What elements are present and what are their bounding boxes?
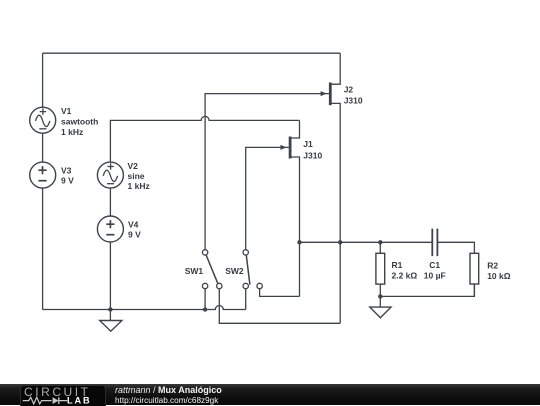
wire V4 bottom to ground bus — [109, 242, 111, 310]
svg-text:LAB: LAB — [67, 396, 92, 405]
junction J2 source on output bus — [338, 240, 342, 244]
source V4 battery — [97, 216, 123, 242]
svg-text:V3: V3 — [61, 166, 72, 176]
svg-text:C1: C1 — [429, 260, 440, 270]
svg-text:2.2 kΩ: 2.2 kΩ — [392, 270, 418, 280]
wire SW2 left throw to ground bus end — [245, 289, 247, 310]
svg-text:J2: J2 — [344, 84, 354, 94]
label J1 — [303, 139, 322, 161]
wire SW2 right throw to J1 source line — [260, 289, 300, 297]
svg-text:1 kHz: 1 kHz — [128, 181, 150, 191]
CircuitLab logo badge — [20, 385, 106, 406]
switch SW1 — [202, 250, 222, 289]
svg-text:J1: J1 — [303, 139, 313, 149]
label V2 — [128, 161, 150, 191]
junction R1 top on output bus — [378, 240, 382, 244]
label SW1 — [185, 266, 204, 276]
wire J1 gate to SW2 common — [246, 147, 289, 249]
label SW2 — [225, 266, 244, 276]
label V3 — [61, 166, 74, 186]
wire V2 bottom to V4 top — [109, 188, 111, 216]
CircuitLab logo — [21, 384, 121, 405]
junction J1 source on output bus — [297, 240, 301, 244]
svg-text:SW1: SW1 — [185, 266, 204, 276]
svg-text:sine: sine — [128, 171, 145, 181]
label R1 — [392, 260, 418, 280]
label R2 — [487, 260, 511, 280]
wire V2 top to J1 drain with hop over SW1 gate wire — [110, 116, 299, 162]
wire J2 gate to SW1 common — [205, 94, 329, 250]
wire top rail V1 to J2 drain — [43, 53, 341, 107]
svg-text:R2: R2 — [487, 260, 498, 270]
label C1 — [424, 260, 446, 280]
resistor R2 — [470, 253, 479, 296]
svg-text:9 V: 9 V — [61, 176, 74, 186]
ground (right, under R1) — [370, 296, 391, 317]
svg-text:sawtooth: sawtooth — [61, 117, 98, 127]
wire V1 bottom to V3 top — [42, 133, 44, 162]
svg-text:1 kHz: 1 kHz — [61, 127, 83, 137]
junction R1 bottom / ground — [378, 294, 382, 298]
svg-text:SW2: SW2 — [225, 266, 244, 276]
wire V3 bottom to ground bus — [42, 188, 44, 310]
source V2 sine — [97, 162, 123, 188]
svg-text:R1: R1 — [392, 260, 403, 270]
label V4 — [128, 219, 141, 239]
switch SW2 — [243, 250, 262, 289]
attribution text — [115, 385, 222, 406]
svg-text:9 V: 9 V — [128, 229, 141, 239]
label J2 — [344, 84, 363, 105]
transistor J1 N-JFET — [280, 120, 299, 296]
transistor J2 N-JFET — [321, 53, 341, 323]
wire SW1 right throw down under bus to J2 source line — [219, 289, 340, 324]
wire output bus J1 source to C1 left plate — [300, 241, 432, 243]
ground (left, under V4) — [100, 310, 122, 332]
resistor R1 — [376, 242, 385, 296]
svg-text:J310: J310 — [303, 151, 322, 161]
label V1 — [61, 106, 98, 137]
capacitor C1 — [432, 229, 437, 257]
source V3 battery — [30, 162, 56, 188]
svg-text:V2: V2 — [128, 161, 139, 171]
source V1 sawtooth — [30, 107, 56, 133]
wire C1 right plate to R2 top — [437, 242, 474, 253]
svg-text:V4: V4 — [128, 219, 139, 229]
svg-text:10 kΩ: 10 kΩ — [487, 271, 511, 281]
footer bar — [0, 384, 540, 405]
svg-text:10 µF: 10 µF — [424, 270, 446, 280]
junction SW1 left throw on ground bus — [203, 307, 207, 311]
svg-text:V1: V1 — [61, 106, 72, 116]
wire SW1 left throw to ground bus — [204, 289, 206, 310]
svg-text:J310: J310 — [344, 96, 363, 106]
wire ground bus with hop over SW1 right throw wire — [43, 306, 246, 310]
wire R1 bottom bus to R2 bottom — [380, 284, 474, 297]
junction V4/ground bus — [108, 307, 112, 311]
